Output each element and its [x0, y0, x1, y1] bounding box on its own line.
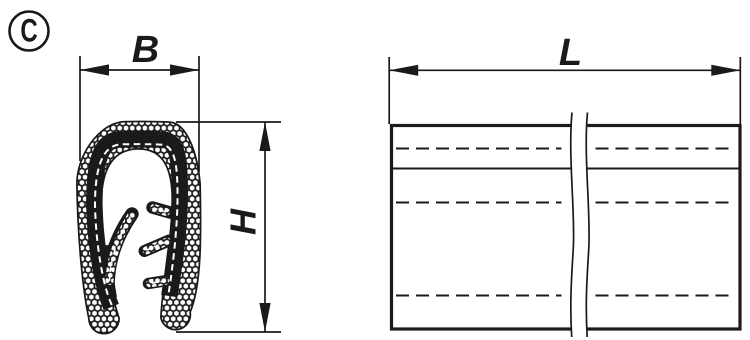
svg-text:L: L [559, 32, 582, 74]
svg-text:C: C [20, 12, 37, 48]
svg-text:B: B [132, 29, 159, 71]
svg-text:H: H [223, 208, 264, 235]
